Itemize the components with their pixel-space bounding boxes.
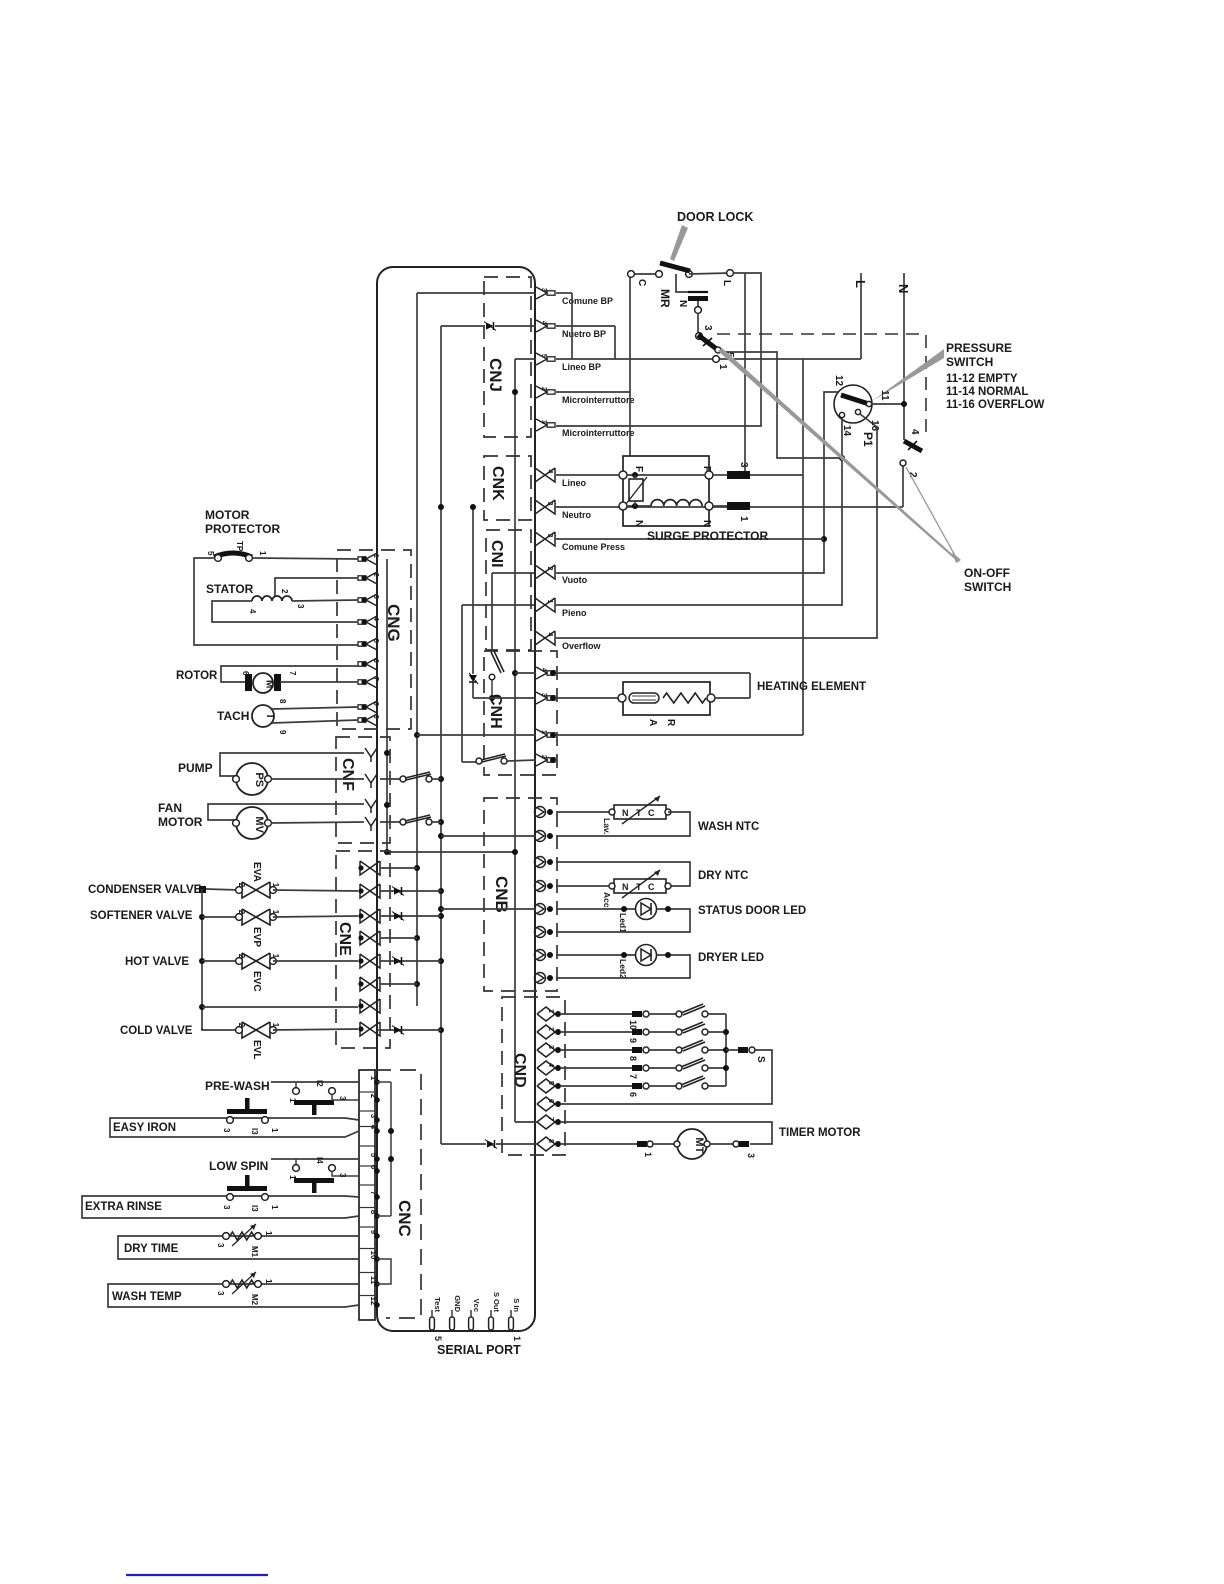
wire stator left to pin4 [212, 601, 358, 622]
wire wash ntc return [556, 812, 690, 836]
svg-text:CNE: CNE [336, 922, 353, 956]
connector CND pins [537, 1007, 561, 1151]
NTC wash sensor [602, 796, 671, 834]
svg-text:1: 1 [270, 1205, 279, 1210]
label TIMER MOTOR [779, 1127, 861, 1139]
wire dry ntc inner [441, 908, 536, 910]
connector CNI pins [535, 532, 555, 645]
svg-text:2: 2 [237, 1023, 246, 1028]
svg-text:5: 5 [547, 1081, 554, 1085]
wire bus x473 [472, 507, 474, 698]
connector CNE box [336, 851, 390, 1048]
label DRY TIME [124, 1243, 179, 1255]
diode D4 valve row [392, 912, 404, 921]
valve EVL [236, 1022, 280, 1059]
svg-text:4: 4 [547, 1063, 554, 1067]
svg-text:2: 2 [547, 1027, 554, 1031]
wire heating top row [515, 673, 750, 698]
svg-text:2: 2 [237, 883, 246, 888]
svg-text:PRESSURE: PRESSURE [946, 341, 1012, 355]
surge protector labels [633, 466, 712, 527]
label DRYER LED [698, 952, 764, 964]
wire softener valve [202, 916, 239, 918]
label DOOR LOCK [677, 210, 753, 224]
svg-text:1: 1 [512, 1336, 522, 1341]
svg-text:6: 6 [372, 659, 379, 663]
svg-text:8: 8 [372, 702, 379, 706]
svg-text:4: 4 [546, 470, 553, 474]
wire stator right to pin3 [292, 600, 358, 601]
svg-text:6: 6 [241, 671, 250, 676]
svg-text:1: 1 [288, 1175, 297, 1180]
svg-text:MOTOR: MOTOR [205, 508, 250, 522]
svg-text:GND: GND [453, 1295, 462, 1312]
thermal fuse A [629, 693, 659, 726]
svg-text:Lav.: Lav. [602, 818, 612, 834]
svg-text:CNG: CNG [384, 604, 403, 642]
on-off switch pole 4-2 [900, 429, 922, 507]
wire Pieno inner extension [462, 605, 536, 762]
svg-text:5: 5 [540, 354, 547, 358]
svg-text:TP: TP [235, 541, 244, 552]
CNC inner bus A [377, 1082, 394, 1216]
connector CND box [502, 997, 565, 1155]
wire EVA to pin [273, 890, 358, 891]
svg-text:P1: P1 [861, 432, 875, 447]
wire dryer led row [556, 952, 635, 958]
svg-text:1: 1 [271, 954, 280, 959]
svg-text:2: 2 [237, 910, 246, 915]
connector CNK pins [535, 468, 555, 514]
svg-text:DRY NTC: DRY NTC [698, 870, 748, 882]
svg-text:A: A [647, 719, 658, 726]
pump motor PS [220, 753, 364, 795]
connector CNH box [484, 651, 557, 775]
svg-text:EVP: EVP [251, 927, 262, 947]
tach generator T [252, 699, 358, 735]
svg-text:1: 1 [264, 1279, 273, 1284]
label PRE-WASH [205, 1079, 270, 1093]
svg-text:3: 3 [338, 1173, 347, 1178]
wire wash ntc top [556, 811, 609, 813]
main control board outline [377, 267, 535, 1331]
svg-text:N: N [622, 808, 629, 818]
svg-text:MR: MR [658, 289, 672, 308]
label DRY NTC [698, 870, 748, 882]
svg-text:Nuetro BP: Nuetro BP [562, 329, 606, 339]
connector CNB box [484, 798, 557, 991]
label EASY IRON [113, 1122, 176, 1134]
svg-text:STATUS DOOR LED: STATUS DOOR LED [698, 905, 806, 917]
connector CNJ box [484, 277, 531, 437]
svg-text:HEATING ELEMENT: HEATING ELEMENT [757, 681, 866, 693]
svg-text:1: 1 [717, 364, 728, 370]
svg-text:ON-OFF: ON-OFF [964, 566, 1010, 580]
svg-text:5: 5 [372, 639, 379, 643]
inductor L1 [651, 500, 702, 506]
connector CNK box [484, 456, 531, 520]
valve EVP [236, 909, 280, 947]
svg-text:1: 1 [546, 600, 553, 604]
callout arrow door lock [670, 225, 688, 261]
label ROTOR [176, 670, 218, 682]
timer connector pins 10-6 [560, 1011, 677, 1097]
svg-text:CNK: CNK [489, 466, 506, 501]
svg-text:1: 1 [271, 883, 280, 888]
relay contact K1 (pump) [380, 772, 441, 782]
svg-text:4: 4 [540, 321, 547, 325]
label ON-OFF SWITCH [964, 566, 1011, 594]
ferrite bead 1 [712, 502, 903, 522]
svg-text:S Out: S Out [492, 1292, 501, 1313]
diode D1 on Neutro BP wire [484, 322, 496, 331]
svg-text:HOT VALVE: HOT VALVE [125, 956, 189, 968]
CNE pin tip dots [358, 865, 363, 1031]
connector CNG pins [358, 553, 379, 726]
wire condenser valve [199, 886, 239, 893]
varistor RV1 [626, 475, 647, 506]
connector CNE pins [360, 861, 380, 1036]
svg-text:I3: I3 [250, 1205, 259, 1212]
wire bus x417 (Comune BP net) [417, 293, 536, 1006]
label CONDENSER VALVE [88, 884, 202, 896]
connector CNC box [359, 1070, 421, 1320]
svg-text:CNJ: CNJ [486, 358, 505, 392]
capacitor C1 (door lock) [676, 274, 708, 333]
label SOFTENER VALVE [90, 910, 193, 922]
svg-text:Comune Press: Comune Press [562, 542, 625, 552]
serial pin numbers [433, 1336, 522, 1341]
svg-text:11-12 EMPTY: 11-12 EMPTY [946, 373, 1018, 385]
svg-text:3: 3 [296, 604, 305, 609]
wire EVP to pin [273, 916, 358, 917]
svg-text:3: 3 [546, 502, 553, 506]
svg-text:N: N [701, 520, 712, 527]
wire stator tap to pin2 [275, 578, 358, 596]
switch I4 low spin [271, 1157, 359, 1193]
svg-text:WASH TEMP: WASH TEMP [112, 1291, 182, 1303]
wire Comune BP drop [556, 293, 572, 359]
svg-text:SERIAL PORT: SERIAL PORT [437, 1343, 521, 1357]
label EXTRA RINSE [85, 1201, 162, 1213]
label LOW SPIN [209, 1159, 268, 1173]
wire dry ntc return [556, 885, 609, 887]
serial port pins [430, 1292, 521, 1330]
svg-text:I2: I2 [315, 1080, 324, 1087]
wire EVL to pin [273, 1029, 358, 1030]
svg-text:1: 1 [271, 910, 280, 915]
valve EVA [236, 862, 280, 898]
timer cam contacts [676, 1004, 726, 1089]
svg-text:I3: I3 [250, 1128, 259, 1135]
surge internal top [627, 472, 705, 478]
wire P1-11 to N [871, 401, 907, 407]
svg-text:1: 1 [547, 1009, 554, 1013]
valve supply bus [199, 889, 358, 1030]
svg-text:MOTOR: MOTOR [158, 815, 203, 829]
svg-text:3: 3 [546, 534, 553, 538]
wire N vertical [896, 273, 911, 440]
svg-text:1: 1 [271, 1023, 280, 1028]
svg-text:EVA: EVA [251, 862, 262, 882]
svg-text:N: N [633, 520, 644, 527]
wire Nuetro BP drop [556, 326, 615, 359]
wire CNH1 row [417, 734, 803, 736]
diode D5 valve row [392, 957, 404, 966]
connector CNI box [486, 530, 531, 650]
wire status led return [556, 906, 690, 932]
wire EVC to pin [273, 960, 358, 962]
svg-text:EASY IRON: EASY IRON [113, 1122, 176, 1134]
ferrite bead 3 [712, 462, 803, 479]
svg-text:M2: M2 [250, 1294, 259, 1306]
svg-text:8: 8 [547, 1139, 554, 1143]
svg-text:Pieno: Pieno [562, 608, 587, 618]
svg-text:6: 6 [547, 1099, 554, 1103]
CNG pin tip dots [361, 556, 366, 722]
svg-text:CND: CND [511, 1053, 528, 1088]
resistor R [663, 693, 706, 727]
connector CNF box [336, 737, 390, 843]
svg-text:S: S [755, 1056, 766, 1063]
svg-text:1: 1 [372, 554, 379, 558]
svg-text:F: F [633, 466, 644, 472]
svg-text:1: 1 [288, 1098, 297, 1103]
svg-text:WASH NTC: WASH NTC [698, 821, 759, 833]
motor protector TP [206, 541, 267, 561]
svg-text:2: 2 [540, 387, 547, 391]
CNI pin labels [562, 542, 625, 651]
wire P1-16 to Overflow [556, 414, 877, 638]
svg-text:L: L [853, 280, 868, 288]
label HOT VALVE [125, 956, 189, 968]
label SURGE PROTECTOR [647, 529, 768, 543]
wire cold valve [202, 1028, 239, 1030]
svg-text:1: 1 [258, 551, 267, 556]
svg-text:LOW SPIN: LOW SPIN [209, 1159, 268, 1173]
wire door lock row [631, 273, 659, 275]
svg-text:3: 3 [702, 325, 713, 331]
connector CNG box [337, 550, 411, 729]
svg-text:Lineo BP: Lineo BP [562, 362, 601, 372]
callout arrow pressure switch [872, 349, 944, 401]
CNJ pin labels [562, 296, 635, 438]
svg-text:6: 6 [628, 1092, 638, 1097]
svg-text:TACH: TACH [217, 709, 249, 723]
svg-text:SWITCH: SWITCH [946, 355, 993, 369]
wire protector to pin5 [194, 558, 358, 645]
NTC dry sensor [602, 870, 671, 910]
LED Led1 status door [618, 899, 657, 934]
svg-text:3: 3 [216, 1291, 225, 1296]
wire Vuoto inner extension [492, 573, 536, 651]
label TACH [217, 709, 249, 723]
connector CNJ pins [536, 287, 555, 431]
svg-text:7: 7 [628, 1074, 638, 1079]
svg-text:Neutro: Neutro [562, 510, 592, 520]
svg-text:FAN: FAN [158, 801, 182, 815]
surge protector terminals [619, 471, 713, 510]
wire micro1 row [556, 391, 630, 393]
svg-text:9: 9 [372, 715, 379, 719]
diode D6 valve row [392, 1026, 404, 1035]
wire L terminal to micro2 [556, 273, 761, 426]
diode D8 vertical [469, 673, 478, 684]
label WASH TEMP [112, 1291, 182, 1303]
svg-text:Comune BP: Comune BP [562, 296, 613, 306]
wire bus x387 (CNF common) [387, 559, 515, 852]
svg-text:5: 5 [206, 551, 215, 556]
svg-text:N: N [622, 882, 629, 892]
svg-text:9: 9 [278, 730, 287, 735]
CNC inner bus B [377, 1259, 391, 1284]
wire switch5 to P1-14 junction [720, 352, 845, 461]
label PRESSURE SWITCH [946, 341, 1012, 369]
svg-text:11: 11 [879, 390, 890, 401]
rotor motor M [221, 666, 358, 693]
label COLD VALVE [120, 1025, 193, 1037]
switch I2 pre-wash [271, 1080, 359, 1115]
label FAN MOTOR [158, 801, 203, 829]
svg-text:SURGE PROTECTOR: SURGE PROTECTOR [647, 529, 768, 543]
relay contact K3 (CNH2) [476, 754, 536, 764]
svg-text:5: 5 [433, 1336, 443, 1341]
wire heating bottom row [556, 697, 619, 699]
svg-text:CNC: CNC [395, 1200, 414, 1237]
svg-text:1: 1 [264, 1231, 273, 1236]
overheat cutout switch [473, 651, 536, 701]
LED Led2 dryer [618, 945, 657, 980]
svg-text:DRYER LED: DRYER LED [698, 952, 764, 964]
CNK pin labels [562, 478, 592, 520]
callout ON-OFF switch [718, 348, 961, 563]
svg-text:2: 2 [237, 954, 246, 959]
wire Lineo BP row [556, 356, 861, 370]
svg-text:MT: MT [693, 1137, 705, 1153]
svg-text:PUMP: PUMP [178, 761, 213, 775]
svg-text:TIMER MOTOR: TIMER MOTOR [779, 1127, 861, 1139]
wire CND7 loop [560, 1122, 772, 1144]
wire dryer led return [556, 952, 690, 978]
svg-text:3: 3 [222, 1128, 231, 1133]
diode D3 valve row [392, 887, 404, 896]
heating element box [618, 682, 750, 715]
svg-text:CNF: CNF [339, 758, 356, 791]
wire L vertical [853, 273, 868, 359]
svg-text:I4: I4 [315, 1157, 324, 1164]
svg-text:2: 2 [372, 573, 379, 577]
potentiometer M1 [118, 1224, 359, 1259]
svg-text:3: 3 [746, 1153, 756, 1158]
timer motor MT [560, 1129, 756, 1159]
wire hot valve [202, 960, 239, 962]
svg-text:8: 8 [278, 699, 287, 704]
wire Comune Press row [556, 538, 824, 540]
svg-text:ROTOR: ROTOR [176, 670, 218, 682]
pressure switch P1 [833, 375, 890, 447]
svg-text:7: 7 [288, 671, 297, 676]
svg-text:1: 1 [738, 516, 749, 522]
footer blue rule [126, 1574, 268, 1576]
junction dots corridor [384, 389, 518, 1033]
svg-text:DRY TIME: DRY TIME [124, 1243, 179, 1255]
svg-text:4: 4 [909, 429, 920, 435]
svg-text:3: 3 [547, 1045, 554, 1049]
svg-text:CNB: CNB [492, 876, 511, 913]
mech linkage dashed [717, 334, 926, 438]
svg-text:F: F [701, 466, 712, 472]
svg-text:MV: MV [253, 816, 265, 833]
label STATUS DOOR LED [698, 905, 806, 917]
svg-text:Vuoto: Vuoto [562, 575, 588, 585]
connector CNB pins [535, 807, 554, 984]
wire status led row [556, 906, 635, 912]
svg-text:S In: S In [512, 1298, 521, 1312]
wire Neutro row [556, 506, 903, 508]
svg-text:Lineo: Lineo [562, 478, 587, 488]
svg-text:M: M [264, 680, 275, 688]
svg-text:3: 3 [738, 462, 749, 468]
wire L drop [802, 359, 804, 735]
svg-text:N: N [896, 284, 911, 293]
svg-text:1: 1 [643, 1152, 653, 1157]
svg-text:4: 4 [546, 633, 553, 637]
connector CNC pin numbers [359, 1076, 378, 1306]
svg-text:9: 9 [628, 1038, 638, 1043]
svg-text:11-16 OVERFLOW: 11-16 OVERFLOW [946, 399, 1045, 411]
label PUMP [178, 761, 213, 775]
svg-text:SWITCH: SWITCH [964, 580, 1011, 594]
CNC edge dots [374, 1079, 380, 1308]
svg-text:N: N [677, 300, 688, 307]
svg-text:3: 3 [540, 288, 547, 292]
svg-text:EVL: EVL [251, 1040, 262, 1059]
svg-text:2: 2 [280, 589, 289, 594]
surge internal bottom [627, 503, 651, 509]
svg-text:L: L [721, 280, 732, 286]
svg-text:2: 2 [540, 755, 547, 759]
timer contact bus [723, 1014, 729, 1086]
svg-text:PROTECTOR: PROTECTOR [205, 522, 280, 536]
svg-text:4: 4 [372, 617, 379, 621]
svg-text:PRE-WASH: PRE-WASH [205, 1079, 270, 1093]
switch I3 easy iron [110, 1098, 359, 1137]
switch I3b extra rinse [82, 1175, 359, 1218]
label STATOR [206, 582, 254, 596]
svg-text:STATOR: STATOR [206, 582, 254, 596]
wire Lineo row to surge [556, 474, 619, 476]
wire wash ntc inner [441, 835, 536, 837]
svg-text:Test: Test [433, 1297, 442, 1312]
label WASH NTC [698, 821, 759, 833]
svg-text:1: 1 [540, 730, 547, 734]
wire bus x441 (Neutro BP net) [441, 326, 537, 1144]
svg-text:EVC: EVC [251, 971, 262, 992]
svg-text:3: 3 [540, 693, 547, 697]
svg-text:4: 4 [540, 668, 547, 672]
svg-text:4: 4 [248, 609, 257, 614]
svg-text:PS: PS [253, 772, 265, 787]
svg-text:C: C [636, 279, 647, 286]
svg-text:3: 3 [338, 1096, 347, 1101]
connector CNF pins [365, 748, 377, 831]
svg-text:Led2: Led2 [618, 959, 628, 979]
wire P1-14 to Pieno [556, 418, 842, 605]
svg-text:COLD VALVE: COLD VALVE [120, 1025, 193, 1037]
svg-text:Vcc: Vcc [472, 1299, 481, 1312]
wire dry ntc top [556, 862, 690, 886]
valve EVC [236, 953, 280, 992]
